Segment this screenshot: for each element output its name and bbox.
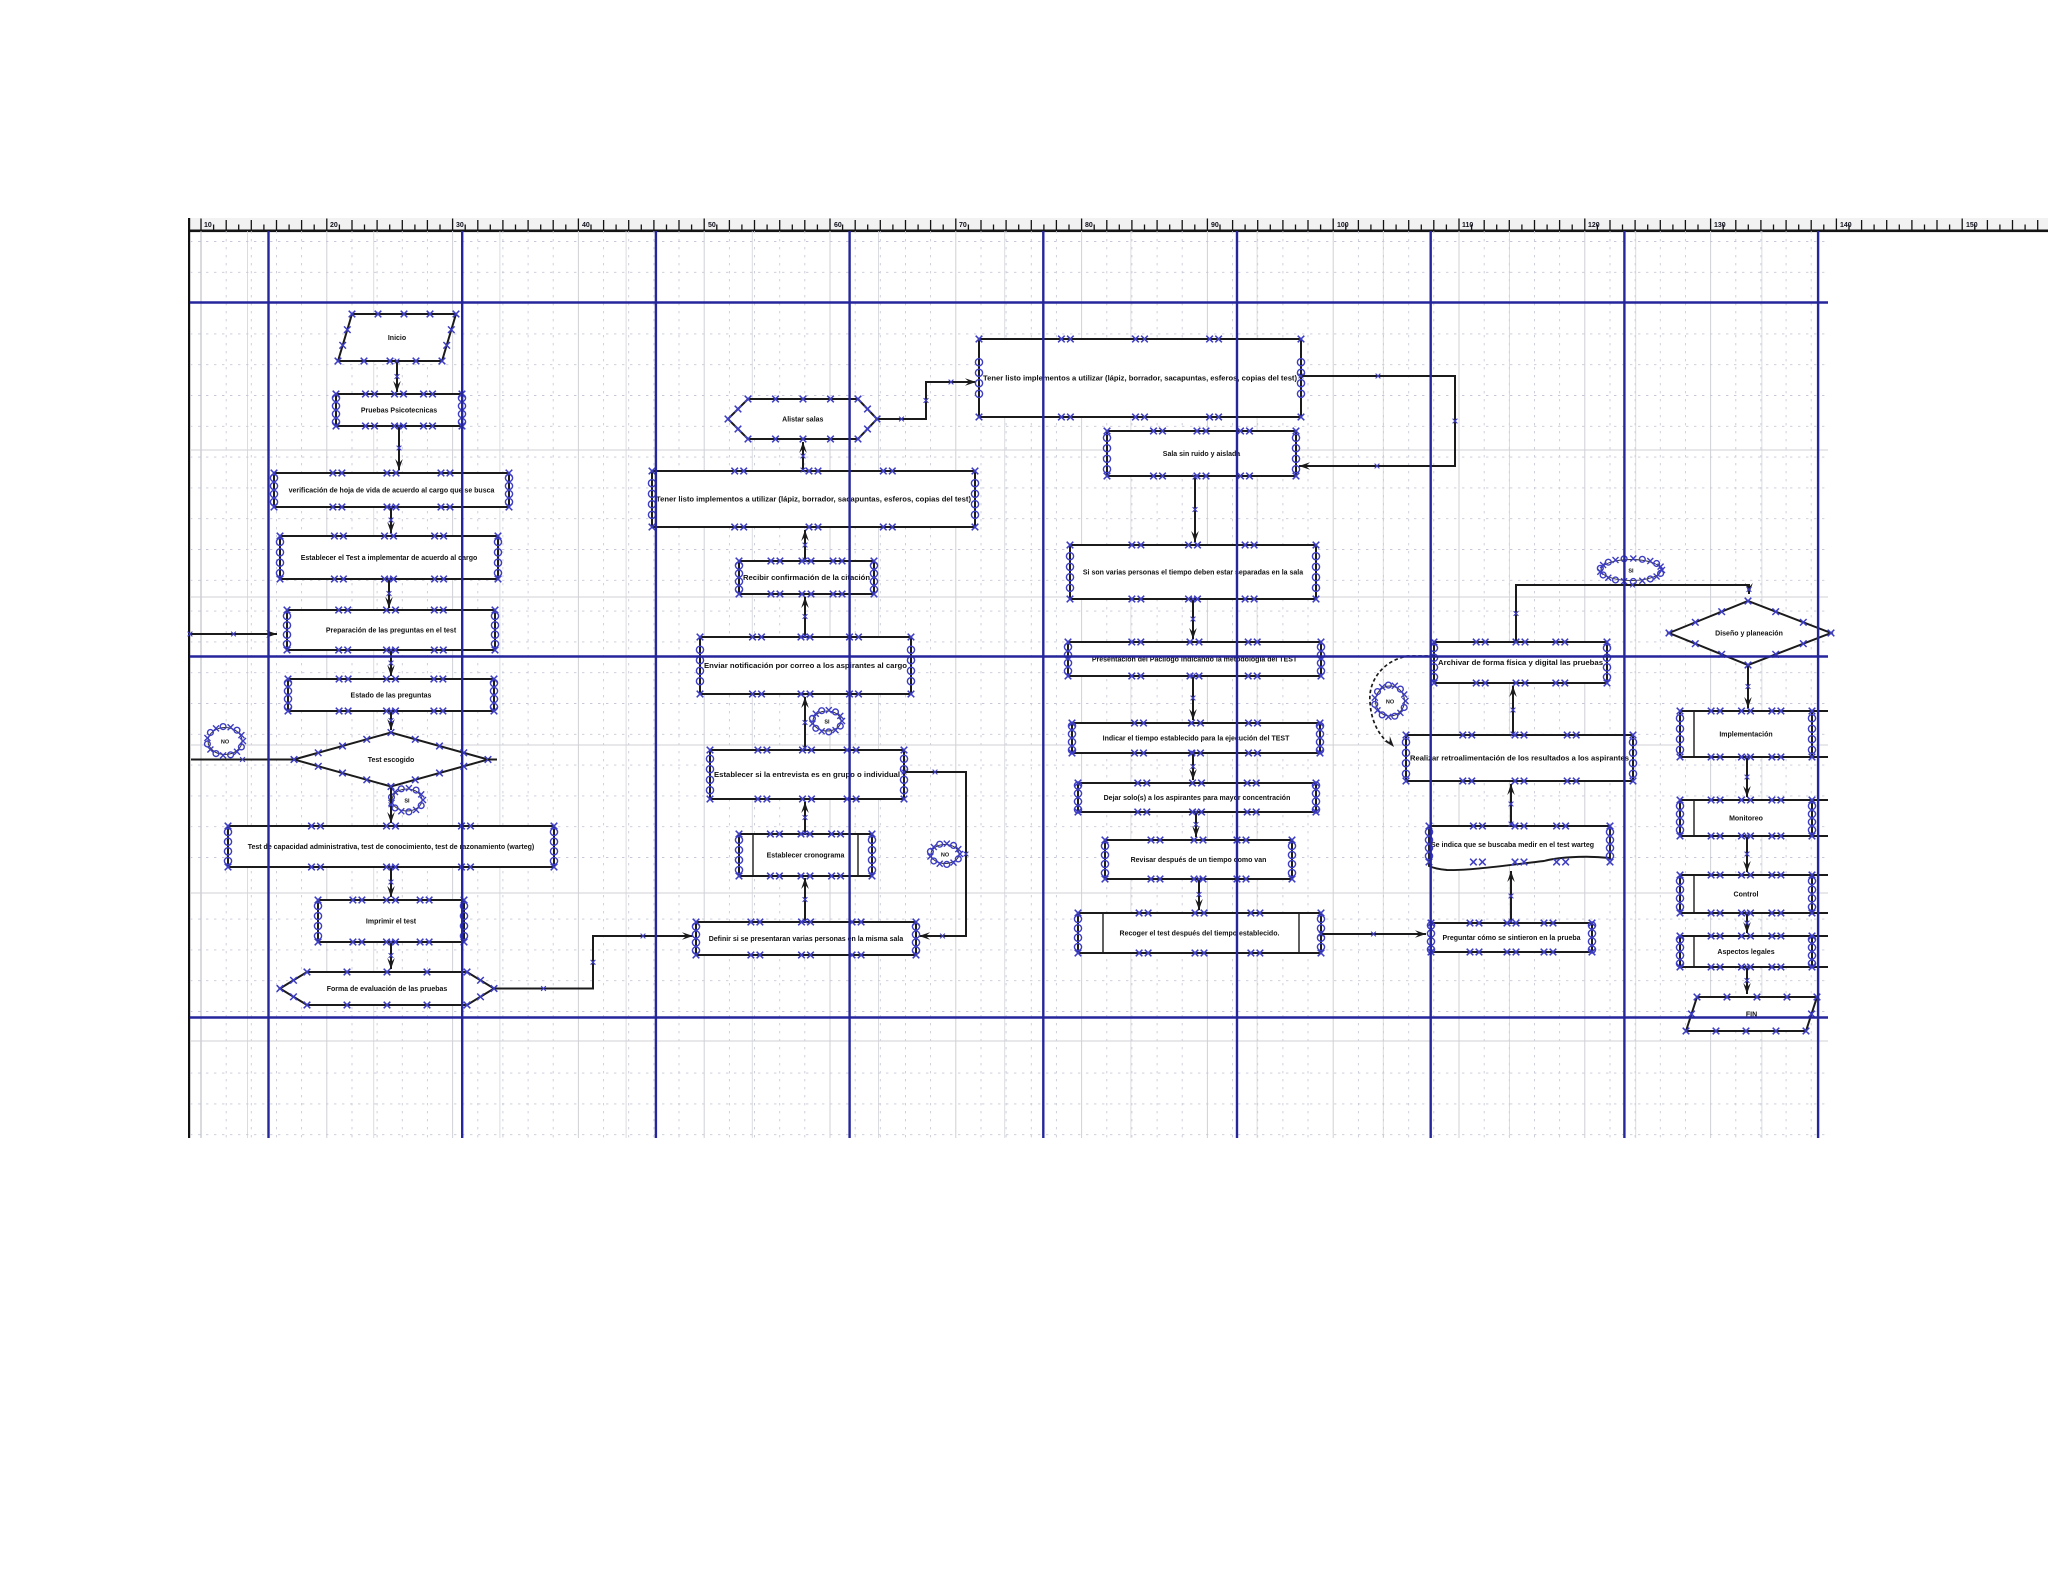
wire TenerListoC->Sala (lazo derecho) (1299, 374, 1458, 470)
svg-text:Implementación: Implementación (1719, 732, 1772, 739)
svg-text:110: 110 (1462, 222, 1473, 229)
process "Si son varias personas..." (1066, 542, 1319, 603)
svg-text:Recoger el test después del ti: Recoger el test después del tiempo estab… (1120, 931, 1280, 938)
wire stub derecha TestEscogido (488, 759, 497, 761)
wire Dejar->Revisar (1192, 810, 1200, 837)
svg-text:Forma de evaluación de las pru: Forma de evaluación de las pruebas (327, 986, 448, 993)
svg-text:Preguntar cómo se sintieron en: Preguntar cómo se sintieron en la prueba (1442, 935, 1580, 942)
process "Revisar despues de un tiempo" (1101, 837, 1295, 883)
process "Sala sin ruido y aislada" (1103, 428, 1299, 480)
svg-text:20: 20 (330, 222, 338, 229)
wire verificacion->Establecer (387, 505, 395, 533)
predefined "Aspectos legales" (1676, 933, 1828, 971)
wire Indicar->Dejar (1189, 751, 1197, 780)
svg-text:100: 100 (1337, 222, 1349, 229)
wire Implementacion->Monitoreo (1743, 755, 1751, 797)
svg-text:Sala sin ruido y aislada: Sala sin ruido y aislada (1163, 451, 1241, 458)
wire Presentacion->Indicar (1189, 674, 1197, 720)
svg-text:NO: NO (1386, 699, 1395, 705)
wire Entrevista->Enviar (801, 697, 809, 750)
process "Imprimir el test" (314, 897, 467, 946)
process "Tener listo implementos (top)" (975, 336, 1304, 421)
svg-text:40: 40 (582, 222, 590, 229)
wire Retroalimentacion->Archivar (1509, 686, 1517, 736)
ruler (188, 218, 2048, 1138)
process "Dejar solo(s) a los aspirantes" (1074, 780, 1319, 816)
process "verificacion de hoja de vida" (270, 470, 512, 511)
wire Imprimir->Forma (387, 940, 395, 969)
wire AlistarSalas->TenerListoC (875, 378, 976, 421)
process "Test de capacidad administrativa..." (224, 823, 557, 871)
svg-text:Establecer el Test a implement: Establecer el Test a implementar de acue… (301, 555, 478, 562)
svg-text:Se indica que se buscaba medir: Se indica que se buscaba medir en el tes… (1431, 842, 1594, 849)
process "Presentacion del Pacilogo" (1064, 639, 1324, 680)
wire Archivar->Diseno (con SI) (1514, 583, 1753, 645)
svg-text:50: 50 (708, 222, 716, 229)
predefined "Control" (1676, 872, 1828, 917)
svg-text:120: 120 (1588, 222, 1600, 229)
wire Revisar->Recoger (1195, 877, 1203, 910)
decision "Diseno y planeacion" (1666, 598, 1835, 669)
svg-text:Enviar notificación por correo: Enviar notificación por correo a los asp… (704, 663, 907, 670)
terminator "FIN" (1683, 994, 1821, 1035)
svg-text:150: 150 (1966, 222, 1978, 229)
svg-text:Archivar de forma física y dig: Archivar de forma física y digital las p… (1438, 660, 1603, 667)
svg-text:140: 140 (1840, 222, 1852, 229)
label NO (lane A) (204, 724, 246, 759)
svg-text:Inicio: Inicio (388, 335, 406, 342)
wire TenerListoB->AlistarSalas (799, 442, 807, 472)
svg-text:Aspectos legales: Aspectos legales (1717, 949, 1774, 956)
label NO (lane D) (1372, 682, 1409, 720)
wire TestCapacidad->Imprimir (387, 865, 395, 897)
label NO (lane B) (927, 841, 963, 868)
predefined "Establecer cronograma" (735, 831, 875, 880)
wire Inicio->Pruebas (393, 359, 401, 392)
svg-text:Dejar solo(s) a los aspirante: Dejar solo(s) a los aspirantes para mayo… (1104, 795, 1291, 802)
svg-text:Control: Control (1734, 892, 1759, 899)
svg-text:30: 30 (456, 222, 464, 229)
svg-text:Test escogido: Test escogido (368, 757, 415, 764)
predefined "Recoger el test despues del tiempo" (1074, 910, 1324, 957)
svg-text:Definir si se presentaran vari: Definir si se presentaran varias persona… (709, 936, 904, 943)
svg-text:Monitoreo: Monitoreo (1729, 816, 1763, 823)
svg-text:60: 60 (834, 222, 842, 229)
wire TestEscogido->TestCapacidad (387, 784, 395, 823)
process "Archivar de forma fisica y digital" (1430, 639, 1610, 687)
wire Recoger->Preguntar (1319, 930, 1426, 938)
terminator "Inicio" (335, 311, 460, 365)
process "Establecer si la entrevista es en grupo o individual" (706, 747, 907, 803)
svg-text:Pruebas Psicotecnicas: Pruebas Psicotecnicas (361, 408, 437, 415)
wire Cronograma->Entrevista (801, 802, 809, 835)
label SI (arriba lane F) (1597, 556, 1665, 585)
wire Preguntar->Documento (1507, 871, 1515, 923)
label SI (lane B) (809, 707, 845, 735)
svg-text:Indicar el tiempo establecido: Indicar el tiempo establecido para la ej… (1103, 736, 1290, 743)
decision "Test escogido" (291, 729, 492, 790)
svg-text:NO: NO (221, 739, 230, 745)
wire Pruebas->verificacion (395, 424, 403, 470)
svg-text:Recibir confirmación de la cit: Recibir confirmación de la citación (743, 575, 870, 582)
svg-text:80: 80 (1085, 222, 1093, 229)
wire Estado->TestEscogido (387, 709, 395, 730)
svg-text:130: 130 (1714, 222, 1726, 229)
process "Estado de las preguntas" (284, 676, 497, 715)
wire Forma->Definir (492, 932, 693, 991)
svg-text:NO: NO (941, 852, 950, 858)
wire Entrevista->Definir (lazo derecho) (902, 770, 969, 940)
svg-text:Test de capacidad administrati: Test de capacidad administrativa, test d… (248, 844, 535, 851)
svg-text:SI: SI (824, 719, 830, 725)
wire Monitoreo->Control (1743, 834, 1751, 872)
svg-text:Si son varias personas el tiem: Si son varias personas el tiempo deben e… (1083, 570, 1303, 577)
wire TestEscogido->izquierda (191, 757, 296, 762)
wire Documento->Retroalimentacion (1507, 784, 1515, 826)
svg-text:10: 10 (204, 222, 212, 229)
process "Realizar retroalimentacion" (1402, 732, 1636, 785)
wire Preparacion->Estado (387, 648, 395, 676)
svg-text:Realizar retroalimentación de: Realizar retroalimentación de los result… (1410, 756, 1629, 763)
wire entrada izquierda->Preparacion (188, 630, 277, 638)
svg-text:verificación de hoja de vida d: verificación de hoja de vida de acuerdo … (289, 488, 495, 495)
document "Se indica que se buscaba medir" (1425, 823, 1613, 870)
preparation "Alistar salas" (725, 396, 881, 443)
wire AspectosLegales->FIN (1743, 965, 1751, 994)
page grid blue lines (190, 231, 1828, 1138)
svg-text:Establecer cronograma: Establecer cronograma (767, 853, 845, 860)
svg-text:Preparación de las preguntas e: Preparación de las preguntas en el test (326, 628, 457, 635)
svg-text:Tener listo implementos a util: Tener listo implementos a utilizar (lápi… (656, 497, 971, 504)
process "Recibir confirmacion de la citacion" (735, 558, 877, 598)
process "Enviar notificacion por correo" (696, 634, 914, 698)
wire Recibir->TenerListoB (801, 530, 809, 562)
wire Establecer->Preparacion (385, 577, 393, 608)
process "Indicar el tiempo establecido" (1068, 720, 1323, 757)
svg-text:Alistar salas: Alistar salas (782, 417, 823, 424)
svg-text:SI: SI (404, 798, 410, 804)
svg-text:Estado de las preguntas: Estado de las preguntas (351, 693, 432, 700)
svg-text:Imprimir el test: Imprimir el test (366, 919, 417, 926)
process "Preparacion de las preguntas" (283, 607, 498, 654)
svg-text:SI: SI (1628, 568, 1634, 574)
wire Diseno->Implementacion (1744, 663, 1752, 708)
wire Enviar->Recibir (801, 597, 809, 638)
process "Definir si se presentaran varias personas" (692, 919, 919, 959)
label SI (lane A) (389, 785, 427, 815)
predefined "Monitoreo" (1676, 797, 1828, 840)
process "Preguntar como se sintieron" (1427, 920, 1595, 956)
process "Tener listo implementos (lane B)" (648, 468, 978, 531)
svg-text:Diseño y planeación: Diseño y planeación (1715, 631, 1783, 638)
wire SiSonVarias->Presentacion (1189, 597, 1197, 639)
predefined "Implementacion" (1676, 708, 1828, 761)
wire Sala->SiSonVarias (1191, 475, 1199, 542)
svg-text:Establecer si la entrevista e: Establecer si la entrevista es en grupo … (714, 772, 900, 779)
process "Establecer el Test a implementar" (276, 533, 501, 583)
svg-text:Tener listo implementos a util: Tener listo implementos a utilizar (lápi… (983, 376, 1297, 383)
preparation "Forma de evaluacion de las pruebas" (277, 969, 498, 1009)
wire lazo NO Archivar->Retroalimentacion (curva) (1370, 656, 1434, 747)
svg-text:70: 70 (959, 222, 967, 229)
svg-text:Revisar después de un tiempo c: Revisar después de un tiempo como van (1131, 857, 1267, 864)
process "Pruebas Psicotecnicas" (332, 391, 465, 430)
svg-text:90: 90 (1211, 222, 1219, 229)
wire Control->AspectosLegales (1743, 911, 1751, 933)
wire Definir->Cronograma (801, 878, 809, 923)
